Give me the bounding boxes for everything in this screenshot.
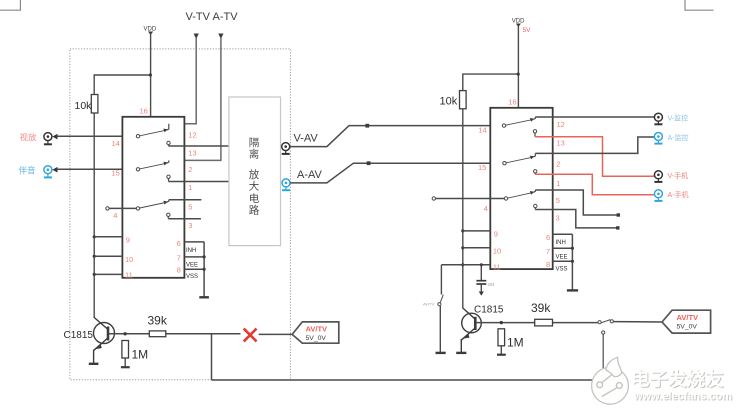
svg-text:39k: 39k <box>148 314 168 328</box>
svg-text:VEE: VEE <box>186 262 198 268</box>
svg-text:A-手机: A-手机 <box>668 190 689 199</box>
label pin 3 U2 <box>556 214 560 223</box>
svg-text:隔: 隔 <box>249 137 259 149</box>
wire pin 3 stub <box>168 218 201 220</box>
arrow A-TV input <box>218 34 223 40</box>
arrow V-TV input <box>194 34 199 40</box>
resistor 10k right <box>440 91 467 109</box>
svg-text:V-AV: V-AV <box>294 133 319 145</box>
node A-AV line junction <box>367 161 371 165</box>
node V-AV line junction <box>365 124 369 128</box>
wire pin 1 to isolation box <box>169 181 229 183</box>
wire switch to ground <box>439 306 441 352</box>
node rail-pin10 right <box>461 246 464 249</box>
ground Q2 emitter <box>456 352 466 354</box>
svg-text:1M: 1M <box>507 336 524 350</box>
label pin 4 U1 <box>113 211 117 220</box>
label pin 7 U1 <box>177 253 181 262</box>
svg-text:10k: 10k <box>75 100 93 112</box>
svg-text:14: 14 <box>478 126 486 135</box>
node rail-pin9 right <box>461 229 464 232</box>
resistor 1M <box>121 341 148 368</box>
node base-1M junction <box>123 332 126 335</box>
label pin 8 U1 <box>177 266 181 275</box>
svg-text:路: 路 <box>249 204 260 217</box>
label pin 12 U2 <box>557 120 565 129</box>
label pin 15 U1 <box>112 169 120 178</box>
label pin 10 U2 <box>493 247 501 256</box>
svg-text:VSS: VSS <box>186 274 198 280</box>
svg-text:16: 16 <box>140 107 148 116</box>
svg-text:3: 3 <box>188 221 192 230</box>
svg-text:1: 1 <box>188 183 192 192</box>
svg-text:INH: INH <box>186 248 196 254</box>
wire VSS rail down right <box>571 234 573 289</box>
svg-text:www.elecfans.com: www.elecfans.com <box>633 391 732 403</box>
switch S1a pin14 common <box>136 124 169 138</box>
svg-text:4: 4 <box>484 204 488 213</box>
svg-text:5V_0V: 5V_0V <box>677 324 698 331</box>
svg-text:电: 电 <box>249 192 260 205</box>
svg-text:2: 2 <box>557 160 561 169</box>
node rail-pin9 <box>93 235 96 238</box>
wire Q2 emitter to ground <box>460 339 462 352</box>
svg-text:6: 6 <box>546 233 550 242</box>
node pin11-capacitor <box>480 263 483 266</box>
wire pin 4 input right <box>436 198 507 200</box>
switch S1b contact pin1 <box>167 175 170 181</box>
svg-text:放: 放 <box>249 168 260 181</box>
flag AV/TV right <box>662 310 711 333</box>
wire pin 7 stub right <box>553 247 573 249</box>
label pin 16 U2 <box>508 98 516 107</box>
jack V-phone <box>654 171 688 182</box>
page border corner top-left <box>0 0 20 10</box>
IC U2 body (analog switch) <box>490 108 552 269</box>
svg-text:2: 2 <box>188 165 192 174</box>
wire Q2 base line <box>476 322 598 324</box>
svg-text:V-监控: V-监控 <box>668 114 689 123</box>
wire Q1 emitter to ground <box>93 350 95 364</box>
wire pin 6 stub right <box>553 233 573 235</box>
wire audio-in to pin 15 <box>57 168 139 170</box>
svg-text:7: 7 <box>177 253 181 262</box>
switch S2c pin4 common <box>504 190 535 200</box>
switch S3 mode select <box>423 295 443 307</box>
label INH U1 <box>186 248 196 254</box>
svg-text:VSS: VSS <box>556 267 568 273</box>
svg-text:A-监控: A-监控 <box>668 133 689 142</box>
wire Q1 base line <box>109 333 241 335</box>
ground below VSS <box>199 296 209 298</box>
wire pin 7 stub <box>184 256 204 258</box>
svg-text:39k: 39k <box>531 301 551 315</box>
switch S2a pin14 common <box>502 117 535 127</box>
wire pin 13 to isolation box <box>169 145 229 147</box>
transistor Q2 C1815 <box>462 305 504 340</box>
svg-text:V-手机: V-手机 <box>668 171 689 180</box>
svg-text:204: 204 <box>488 282 496 287</box>
resistor 39k right <box>531 301 553 326</box>
wire pin 8 stub right <box>553 260 573 262</box>
label pin 1 U1 <box>188 183 192 192</box>
flag AV/TV left <box>292 322 339 343</box>
label pin 13 U2 <box>557 139 565 148</box>
svg-text:11: 11 <box>125 271 133 280</box>
label pin 15 U2 <box>478 163 486 172</box>
svg-text:10: 10 <box>125 255 133 264</box>
label pin 1 U2 <box>556 179 560 188</box>
wire pin 5 step <box>535 190 618 215</box>
wire pin 3 step <box>535 210 617 228</box>
wire VDD left vertical to pin 16 <box>150 34 152 117</box>
wire pin 8 stub <box>184 268 204 270</box>
label VSS U1 <box>186 274 198 280</box>
wire bottom rail <box>212 379 593 381</box>
svg-text:视放: 视放 <box>20 133 38 143</box>
jack A-AV output <box>282 169 323 190</box>
label pin 14 U1 <box>112 139 120 148</box>
svg-text:13: 13 <box>557 139 565 148</box>
switch S2c contact pin3 <box>534 204 537 209</box>
svg-text:10k: 10k <box>440 96 458 108</box>
label pin 9 U2 <box>494 230 498 239</box>
label pin 6 U2 <box>546 233 550 242</box>
power VDD left <box>144 27 157 36</box>
label pin 16 U1 <box>140 107 148 116</box>
svg-text:AV/TV: AV/TV <box>423 302 435 307</box>
label pin 5 U1 <box>188 203 192 212</box>
label pin 11 U2 <box>493 262 501 271</box>
svg-text:A-AV: A-AV <box>297 169 323 181</box>
node rail-pin11 right <box>461 263 464 266</box>
wire S4 to flag <box>613 321 662 323</box>
svg-text:9: 9 <box>494 230 498 239</box>
ground Q1 emitter <box>89 363 99 365</box>
wire S4 drop down <box>602 334 604 368</box>
svg-text:12: 12 <box>188 131 196 140</box>
wire X to flag <box>259 333 293 335</box>
svg-text:1: 1 <box>556 179 560 188</box>
terminal pin 3 end <box>616 226 619 229</box>
label A-TV <box>213 11 239 23</box>
node VSS rail <box>203 268 206 271</box>
switch S2b pin15 common <box>503 153 536 165</box>
wire pin 10 right <box>463 247 491 249</box>
svg-text:V-TV: V-TV <box>186 11 211 23</box>
capacitor 204 <box>476 265 495 296</box>
wire A-TV drop to pin 2 <box>169 38 221 160</box>
svg-text:5V_0V: 5V_0V <box>306 335 327 342</box>
label VEE U1 <box>186 262 198 268</box>
switch S1c pin4 common <box>136 200 169 210</box>
wire pin 12 to V-monitor jack <box>535 116 654 118</box>
svg-text:11: 11 <box>493 262 501 271</box>
jack video-in 视放 <box>20 133 58 145</box>
resistor 39k <box>148 314 168 337</box>
label pin 14 U2 <box>478 126 486 135</box>
wire VDD branch to 10k right <box>463 74 519 91</box>
svg-text:C1815: C1815 <box>474 305 504 316</box>
svg-text:14: 14 <box>112 139 120 148</box>
break mark X red <box>244 329 257 342</box>
switch S4 output select <box>598 320 613 335</box>
wire pin 1 red to A-phone jack <box>535 174 654 195</box>
switch S2b contact pin1 <box>534 170 537 175</box>
jack A-monitor <box>654 133 688 144</box>
power VDD right <box>512 19 531 34</box>
wire left bias rail <box>93 113 95 318</box>
svg-text:AV/TV: AV/TV <box>677 313 699 322</box>
svg-text:伴音: 伴音 <box>19 166 37 176</box>
IC U1 body (analog switch) <box>122 117 184 278</box>
wire pin 11 right with branch to switch <box>441 264 490 266</box>
junction on VDD right <box>517 73 520 76</box>
wire video-in to pin 14 <box>57 135 139 137</box>
svg-text:15: 15 <box>112 169 120 178</box>
jack V-AV output <box>282 133 319 154</box>
switch S1b pin15 common <box>136 160 169 171</box>
svg-text:C1815: C1815 <box>64 330 94 341</box>
terminal pin 5 end <box>617 213 620 216</box>
ground below VSS right <box>567 289 578 291</box>
wire V-TV drop to pin 12 <box>169 38 196 124</box>
resistor 1M right <box>497 329 524 355</box>
label pin 8 U2 <box>546 260 550 269</box>
wire right bias rail <box>462 109 464 309</box>
wire pin 2 to A-monitor jack <box>535 137 654 153</box>
svg-text:A-TV: A-TV <box>213 11 239 23</box>
jack audio-in 伴音 <box>19 166 58 178</box>
label INH U2 <box>556 240 566 246</box>
watermark elecfans logo <box>592 357 629 404</box>
wire VDD branch to 10k left <box>94 75 150 95</box>
svg-text:5: 5 <box>188 203 192 212</box>
wire pin 13 red to V-phone jack <box>535 137 654 177</box>
svg-text:8: 8 <box>546 260 550 269</box>
svg-text:13: 13 <box>188 149 196 158</box>
junction on VDD left <box>149 73 152 76</box>
isolation amplifier box 隔离放大电路 <box>229 97 281 246</box>
label V-TV <box>186 11 211 23</box>
terminal pin 4 U2 open circle <box>432 197 435 200</box>
wire pin 9 <box>94 236 122 238</box>
label pin 6 U1 <box>177 239 181 248</box>
label VEE U2 <box>556 255 568 261</box>
svg-text:6: 6 <box>177 239 181 248</box>
label pin 10 U1 <box>125 255 133 264</box>
svg-text:7: 7 <box>546 247 550 256</box>
svg-text:10: 10 <box>493 247 501 256</box>
wire drop to bottom rail <box>211 334 213 380</box>
transistor Q1 C1815 <box>64 318 115 351</box>
label pin 2 U1 <box>188 165 192 174</box>
wire V-AV to right pin 14 <box>290 126 504 147</box>
svg-text:9: 9 <box>126 236 130 245</box>
node VEE rail <box>203 255 206 258</box>
label VSS U2 <box>556 267 568 273</box>
svg-text:AV/TV: AV/TV <box>306 325 328 334</box>
svg-text:VEE: VEE <box>556 255 568 261</box>
svg-text:16: 16 <box>508 98 516 107</box>
switch S1c contact pin3 <box>167 213 170 219</box>
switch S1a contact pin13 <box>167 141 170 146</box>
dashed enclosure box <box>70 49 291 380</box>
page border corner top-right <box>685 0 714 10</box>
ground mode switch <box>436 352 446 354</box>
label pin 11 U1 <box>125 271 133 280</box>
svg-text:大: 大 <box>249 180 260 193</box>
watermark text elecfans <box>631 369 733 404</box>
wire VSS rail down <box>203 242 205 297</box>
svg-text:5V: 5V <box>523 27 532 34</box>
wire VDD right vertical to pin 16 <box>517 26 519 108</box>
label pin 13 U1 <box>188 149 196 158</box>
label pin 5 U2 <box>556 196 560 205</box>
label pin 4 U2 <box>484 204 488 213</box>
svg-text:1M: 1M <box>132 348 149 362</box>
node rail-pin10 <box>93 255 96 258</box>
node VSS rail right <box>571 260 574 263</box>
svg-text:电子发烧友: 电子发烧友 <box>631 369 724 390</box>
wire A-AV to right pin 15 <box>290 163 504 183</box>
label pin 12 U1 <box>188 131 196 140</box>
svg-text:4: 4 <box>113 211 117 220</box>
svg-text:15: 15 <box>478 163 486 172</box>
node VEE rail right <box>571 247 574 250</box>
wire pin 6 stub <box>184 241 204 243</box>
label pin 9 U1 <box>126 236 130 245</box>
label pin 2 U2 <box>557 160 561 169</box>
svg-text:INH: INH <box>556 240 566 246</box>
jack V-monitor <box>654 113 688 124</box>
resistor 10k left <box>75 95 98 114</box>
svg-text:12: 12 <box>557 120 565 129</box>
wire pin11 branch down to mode switch <box>440 265 442 295</box>
wire pin 11 <box>94 273 122 275</box>
wire pin 4 input <box>109 207 138 209</box>
label pin 7 U2 <box>546 247 550 256</box>
switch S2a contact pin13 <box>533 130 536 137</box>
svg-text:5: 5 <box>556 196 560 205</box>
terminal pin 4 U1 open circle <box>106 207 109 210</box>
node rail-pin11 <box>93 273 96 276</box>
wire pin 5 stub <box>169 199 202 201</box>
svg-text:离: 离 <box>249 148 259 161</box>
node base-1M junction right <box>500 321 503 324</box>
jack A-phone <box>654 190 688 201</box>
wire pin 10 <box>94 255 122 257</box>
svg-text:3: 3 <box>556 214 560 223</box>
wire pin 9 right <box>463 230 491 232</box>
svg-text:8: 8 <box>177 266 181 275</box>
label pin 3 U1 <box>188 221 192 230</box>
